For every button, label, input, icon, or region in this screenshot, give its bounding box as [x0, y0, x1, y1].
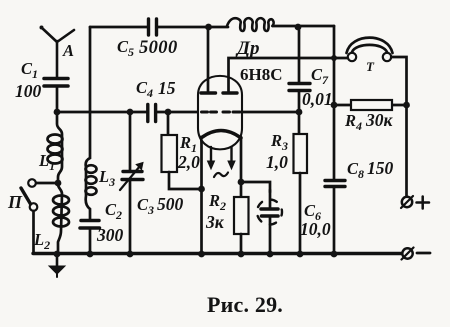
svg-text:C1: C1 — [21, 59, 38, 81]
svg-text:C7: C7 — [311, 65, 329, 87]
svg-text:2,0: 2,0 — [177, 152, 200, 172]
svg-text:Др: Др — [235, 38, 259, 59]
svg-text:100: 100 — [15, 81, 42, 101]
svg-text:C8: C8 — [347, 159, 364, 181]
svg-text:5000: 5000 — [139, 38, 178, 58]
svg-text:15: 15 — [158, 78, 176, 98]
svg-text:10,0: 10,0 — [300, 219, 331, 239]
svg-text:150: 150 — [367, 158, 394, 178]
svg-text:0,01: 0,01 — [302, 89, 333, 109]
svg-text:30к: 30к — [365, 110, 394, 130]
svg-text:3к: 3к — [205, 212, 225, 232]
svg-text:C4: C4 — [136, 78, 153, 100]
svg-text:П: П — [7, 192, 23, 212]
svg-text:C5: C5 — [117, 37, 134, 59]
svg-text:300: 300 — [96, 225, 124, 245]
svg-text:C2: C2 — [105, 200, 122, 222]
svg-text:1,0: 1,0 — [266, 152, 288, 172]
svg-text:Рис. 29.: Рис. 29. — [207, 292, 283, 317]
svg-text:R3: R3 — [270, 131, 288, 153]
svg-text:Т: Т — [366, 59, 375, 74]
svg-text:A: A — [62, 41, 74, 60]
svg-text:L2: L2 — [33, 230, 50, 252]
svg-text:R2: R2 — [208, 191, 226, 213]
svg-text:500: 500 — [157, 194, 184, 214]
svg-text:L3: L3 — [98, 167, 115, 189]
svg-text:C3: C3 — [137, 195, 154, 217]
svg-text:R4: R4 — [344, 111, 362, 133]
svg-text:6Н8С: 6Н8С — [240, 65, 283, 84]
